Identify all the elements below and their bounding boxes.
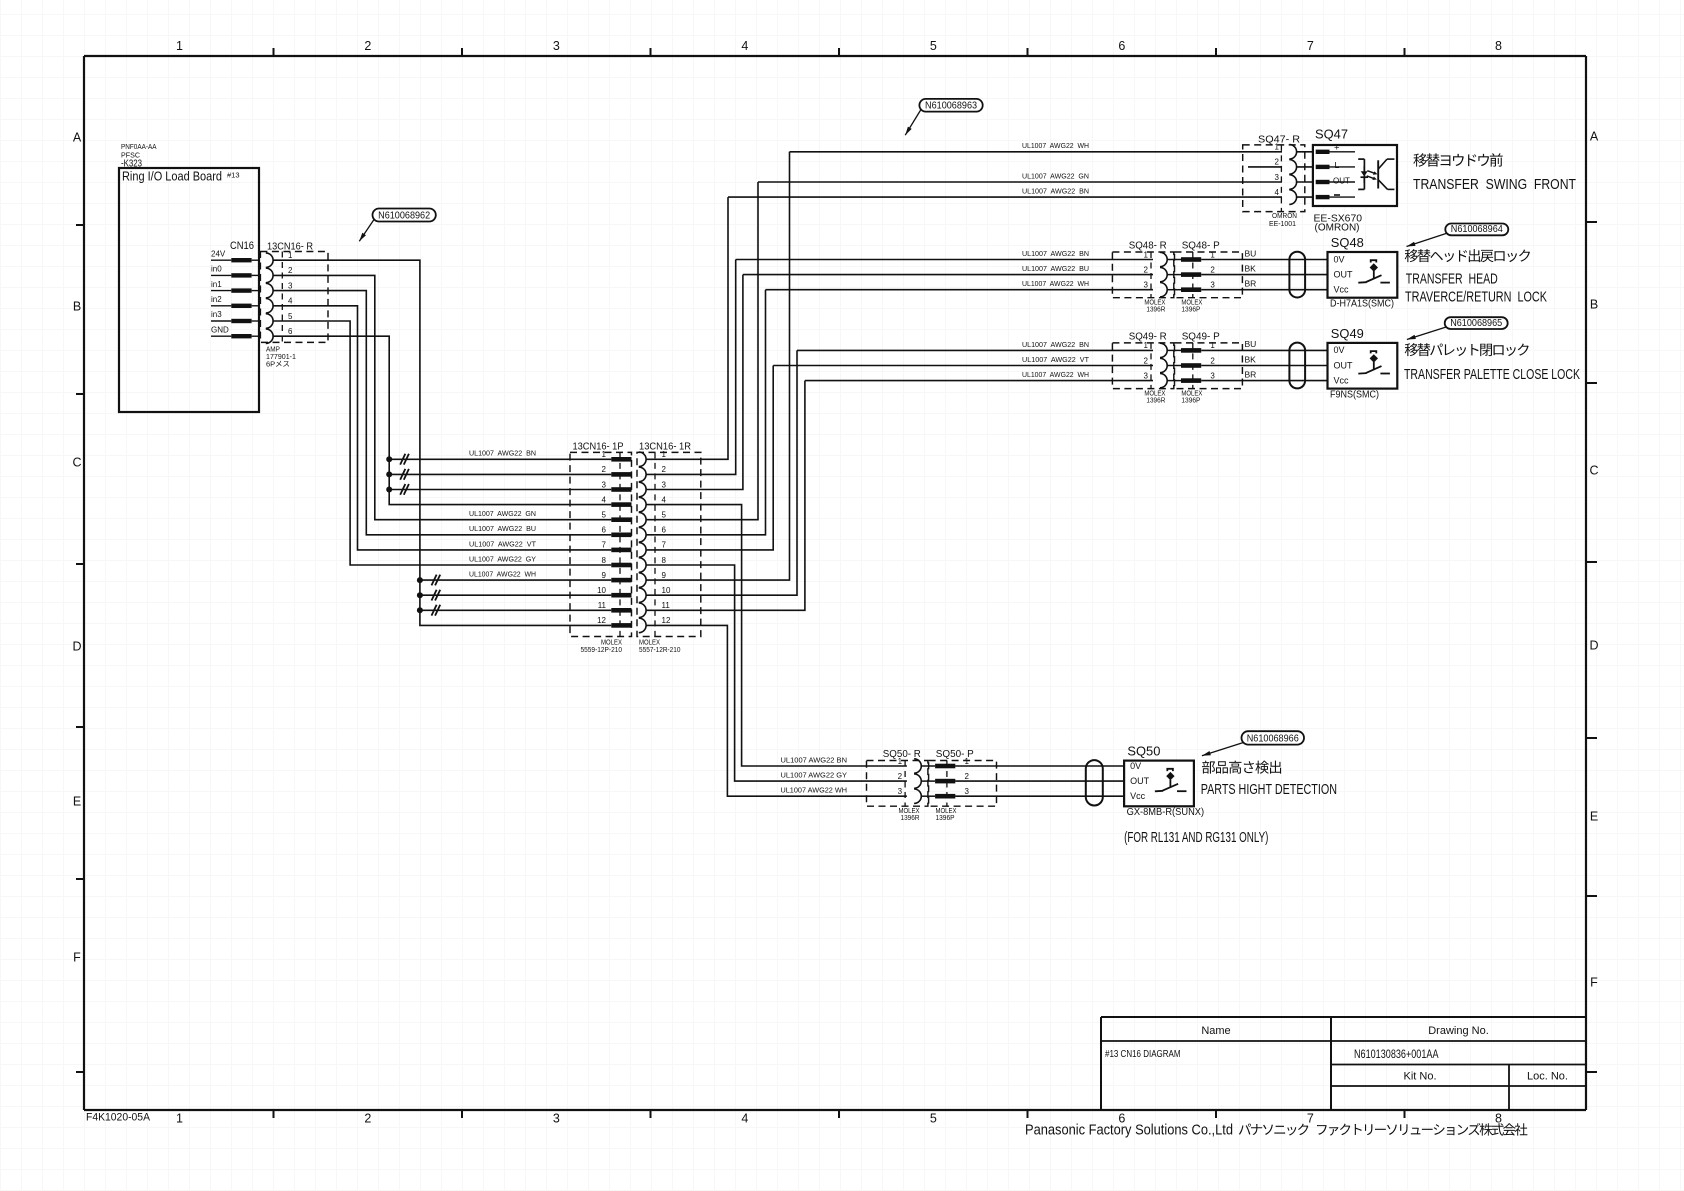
- svg-text:SQ47: SQ47: [1315, 128, 1348, 142]
- callout N610068965: [1407, 317, 1508, 340]
- connector 13CN16-R (AMP 177901-1 6P): [260, 241, 328, 369]
- svg-text:3: 3: [553, 39, 560, 53]
- svg-text:MOLEX: MOLEX: [1181, 390, 1202, 397]
- svg-text:6: 6: [602, 526, 607, 535]
- svg-text:UL1007 AWG22 WH: UL1007 AWG22 WH: [1022, 370, 1089, 379]
- svg-text:UL1007 AWG22 GN: UL1007 AWG22 GN: [469, 509, 536, 518]
- svg-text:3: 3: [1144, 371, 1149, 380]
- Ring I/O Load Board -K323: [119, 142, 259, 412]
- title block: [1101, 1017, 1586, 1110]
- svg-text:F4K1020-05A: F4K1020-05A: [86, 1112, 151, 1124]
- svg-text:SQ47- R: SQ47- R: [1258, 134, 1300, 146]
- svg-text:1: 1: [1144, 250, 1149, 259]
- wire SQ47 row1: [790, 151, 1283, 153]
- svg-text:2: 2: [662, 465, 667, 474]
- svg-text:6: 6: [662, 526, 667, 535]
- label TRANSFER HEAD TRAVERCE/RETURN LOCK: [1405, 249, 1548, 305]
- wire SQ47 row2 stub: [1248, 166, 1282, 168]
- cable oval SQ50: [1086, 760, 1103, 805]
- wire labels to SQ50: [781, 755, 848, 794]
- svg-text:4: 4: [602, 495, 607, 504]
- wire SQ47 row3: [758, 181, 1282, 183]
- wires into SQ48-R: [736, 259, 1153, 261]
- svg-text:C: C: [72, 456, 81, 470]
- svg-text:OUT: OUT: [1333, 176, 1350, 185]
- svg-text:SQ50: SQ50: [1127, 745, 1160, 759]
- svg-text:7: 7: [1307, 1112, 1314, 1126]
- svg-text:0V: 0V: [1334, 254, 1345, 264]
- svg-text:Panasonic Factory Solutions Co: Panasonic Factory Solutions Co.,Ltd: [1025, 1122, 1233, 1139]
- svg-text:TRANSFER PALETTE CLOSE LOCK: TRANSFER PALETTE CLOSE LOCK: [1404, 367, 1580, 383]
- svg-text:5: 5: [662, 511, 667, 520]
- svg-text:UL1007 AWG22 BN: UL1007 AWG22 BN: [781, 755, 848, 764]
- svg-text:6: 6: [1118, 39, 1125, 53]
- label TRANSFER SWING FRONT: [1413, 153, 1576, 193]
- svg-text:L: L: [1335, 160, 1340, 170]
- svg-text:1: 1: [176, 39, 183, 53]
- wire 13CN16-1R pin8 to SQ50 OUT: [646, 565, 907, 781]
- wire in3: 13CN16-R pin5 to 13CN16-1P pin8: [273, 321, 611, 565]
- svg-text:Vcc: Vcc: [1334, 375, 1350, 385]
- svg-text:12: 12: [597, 616, 606, 625]
- svg-text:F9NS(SMC): F9NS(SMC): [1330, 389, 1379, 400]
- svg-text:#13 CN16 DIAGRAM: #13 CN16 DIAGRAM: [1105, 1049, 1181, 1060]
- svg-text:MOLEX: MOLEX: [1144, 300, 1165, 307]
- svg-text:UL1007 AWG22 GN: UL1007 AWG22 GN: [1022, 171, 1089, 180]
- svg-text:UL1007 AWG22 VT: UL1007 AWG22 VT: [469, 539, 536, 548]
- svg-text:BK: BK: [1245, 354, 1257, 364]
- svg-text:3: 3: [1144, 281, 1149, 290]
- svg-text:1: 1: [1210, 250, 1215, 259]
- svg-text:in1: in1: [211, 280, 222, 289]
- svg-text:3: 3: [1210, 281, 1215, 290]
- svg-text:8: 8: [662, 556, 667, 565]
- svg-text:MOLEX: MOLEX: [1144, 390, 1165, 397]
- svg-text:9: 9: [602, 571, 607, 580]
- svg-text:2: 2: [1210, 356, 1215, 365]
- wires SQ49-P to SQ49: [1201, 350, 1327, 380]
- svg-text:11: 11: [598, 601, 607, 610]
- wire in1: 13CN16-R pin3 to 13CN16-1P pin6: [273, 291, 611, 535]
- svg-text:8: 8: [602, 556, 607, 565]
- svg-text:1: 1: [288, 251, 293, 260]
- svg-text:N610068965: N610068965: [1450, 317, 1502, 329]
- svg-text:UL1007 AWG22 BN: UL1007 AWG22 BN: [1022, 340, 1089, 349]
- svg-text:UL1007 AWG22 WH: UL1007 AWG22 WH: [781, 786, 848, 795]
- wires SQ50-P to SQ50: [955, 766, 1124, 796]
- callout N610068966: [1202, 731, 1304, 756]
- svg-text:-K323: -K323: [121, 158, 142, 170]
- svg-text:Drawing No.: Drawing No.: [1428, 1025, 1489, 1037]
- svg-text:Name: Name: [1201, 1025, 1230, 1037]
- svg-text:in2: in2: [211, 295, 222, 304]
- svg-text:1396P: 1396P: [936, 815, 955, 822]
- svg-text:5557-12R-210: 5557-12R-210: [639, 645, 681, 654]
- svg-text:UL1007 AWG22 BN: UL1007 AWG22 BN: [469, 449, 536, 458]
- svg-text:0V: 0V: [1130, 761, 1141, 771]
- svg-text:#13: #13: [227, 171, 240, 180]
- svg-text:1396R: 1396R: [1146, 397, 1165, 404]
- svg-text:1: 1: [662, 450, 667, 459]
- wire labels UL1007 AWG22: [469, 449, 536, 579]
- svg-text:4: 4: [662, 495, 667, 504]
- svg-text:12: 12: [662, 616, 671, 625]
- callout N610068963: [905, 99, 983, 135]
- svg-text:BU: BU: [1245, 339, 1257, 349]
- connector pair SQ48-R / SQ48-P (MOLEX 1396): [1112, 240, 1242, 314]
- svg-text:MOLEX: MOLEX: [899, 808, 920, 815]
- svg-text:6P: 6P: [266, 360, 275, 369]
- svg-text:D: D: [1589, 639, 1598, 653]
- wire 13CN16-1R pin6 to SQ48 Vcc: [646, 290, 765, 535]
- wire 13CN16-1R pin9 to SQ47 +: [646, 152, 789, 580]
- svg-text:7: 7: [662, 541, 667, 550]
- svg-text:EE-1001: EE-1001: [1269, 221, 1296, 228]
- svg-text:UL1007 AWG22 WH: UL1007 AWG22 WH: [1022, 141, 1089, 150]
- svg-text:Ring I/O Load Board: Ring I/O Load Board: [122, 170, 222, 184]
- svg-text:in0: in0: [211, 265, 222, 274]
- svg-text:UL1007 AWG22 GY: UL1007 AWG22 GY: [469, 554, 536, 563]
- svg-text:2: 2: [1144, 265, 1149, 274]
- wire SQ47 row4: [728, 196, 1282, 198]
- svg-text:in3: in3: [211, 310, 222, 319]
- svg-text:E: E: [1590, 810, 1598, 824]
- switch sensor SQ48 (D-H7A1S SMC): [1328, 236, 1398, 310]
- svg-text:3: 3: [898, 787, 903, 796]
- wire 13CN16-1R pin4 to SQ50 0V: [646, 505, 907, 766]
- svg-text:5: 5: [930, 1112, 937, 1126]
- svg-text:CN16: CN16: [230, 240, 254, 252]
- svg-text:F: F: [73, 951, 81, 965]
- svg-text:1: 1: [1210, 341, 1215, 350]
- svg-text:3: 3: [965, 787, 970, 796]
- svg-text:PARTS HIGHT DETECTION: PARTS HIGHT DETECTION: [1201, 782, 1337, 798]
- svg-text:GND: GND: [211, 325, 229, 334]
- svg-text:BR: BR: [1245, 279, 1257, 289]
- svg-text:BR: BR: [1245, 369, 1257, 379]
- svg-text:MOLEX: MOLEX: [936, 808, 957, 815]
- svg-text:MOLEX: MOLEX: [1181, 300, 1202, 307]
- svg-text:UL1007 AWG22 VT: UL1007 AWG22 VT: [1022, 355, 1089, 364]
- svg-text:SQ49: SQ49: [1331, 327, 1364, 341]
- svg-text:OUT: OUT: [1334, 269, 1354, 279]
- svg-text:Loc. No.: Loc. No.: [1527, 1071, 1568, 1083]
- wire labels to SQ49: [1022, 340, 1089, 379]
- svg-text:4: 4: [741, 1112, 748, 1126]
- svg-text:F: F: [1590, 976, 1598, 990]
- cable oval SQ48: [1289, 252, 1305, 298]
- svg-text:A: A: [73, 131, 82, 145]
- connector 13CN16-1P (MOLEX 5559-12P-210): [570, 441, 632, 655]
- svg-text:B: B: [1590, 298, 1598, 312]
- svg-text:N610068964: N610068964: [1451, 223, 1503, 235]
- svg-text:3: 3: [602, 480, 607, 489]
- svg-text:N610068966: N610068966: [1247, 732, 1299, 744]
- svg-text:1396P: 1396P: [1181, 307, 1200, 314]
- svg-text:1: 1: [965, 757, 970, 766]
- connector pair SQ50-R / SQ50-P (MOLEX 1396): [867, 748, 997, 822]
- cable oval SQ49: [1289, 343, 1305, 389]
- wire 13CN16-1R pin12 to SQ50 Vcc: [646, 625, 907, 796]
- wire colours BU BK BR: [1245, 248, 1257, 288]
- svg-text:4: 4: [288, 297, 293, 306]
- wire in0: 13CN16-R pin2 to 13CN16-1P pin5: [273, 275, 611, 519]
- svg-text:7: 7: [602, 541, 607, 550]
- svg-text:3: 3: [288, 281, 293, 290]
- svg-text:4: 4: [741, 39, 748, 53]
- svg-text:13CN16- 1P: 13CN16- 1P: [573, 441, 624, 453]
- svg-text:1396R: 1396R: [1146, 307, 1165, 314]
- svg-text:3: 3: [1275, 173, 1280, 182]
- svg-text:UL1007 AWG22 WH: UL1007 AWG22 WH: [469, 570, 536, 579]
- svg-text:C: C: [1589, 464, 1598, 478]
- svg-text:24V: 24V: [211, 249, 226, 258]
- svg-text:D-H7A1S(SMC): D-H7A1S(SMC): [1330, 299, 1394, 310]
- svg-text:2: 2: [965, 772, 970, 781]
- svg-text:UL1007 AWG22 BN: UL1007 AWG22 BN: [1022, 187, 1089, 196]
- connector pair SQ49-R / SQ49-P (MOLEX 1396): [1112, 330, 1242, 404]
- svg-text:1: 1: [176, 1112, 183, 1126]
- wire 13CN16-1R pin10 to SQ49 0V: [646, 350, 797, 595]
- svg-text:1396R: 1396R: [901, 815, 920, 822]
- svg-text:2: 2: [1275, 158, 1280, 167]
- svg-text:1: 1: [1275, 143, 1280, 152]
- svg-text:B: B: [73, 300, 81, 314]
- wires SQ48-P to SQ48: [1201, 260, 1327, 290]
- svg-text:0V: 0V: [1334, 345, 1345, 355]
- svg-text:UL1007 AWG22 BU: UL1007 AWG22 BU: [469, 524, 536, 533]
- svg-text:11: 11: [662, 601, 671, 610]
- connector 13CN16-1R (MOLEX 5557-12R-210): [637, 441, 701, 655]
- svg-text:4: 4: [1275, 188, 1280, 197]
- svg-text:2: 2: [364, 1112, 371, 1126]
- wire labels to SQ47: [1022, 141, 1089, 195]
- svg-text:UL1007 AWG22 GY: UL1007 AWG22 GY: [781, 771, 848, 780]
- callout N610068962: [359, 209, 436, 242]
- svg-text:+: +: [1334, 143, 1340, 154]
- svg-text:N610068963: N610068963: [925, 99, 977, 111]
- label PARTS HIGHT DETECTION: [1201, 761, 1337, 798]
- svg-text:OUT: OUT: [1334, 360, 1354, 370]
- wire 13CN16-1R pin7 to SQ49 OUT: [646, 366, 773, 550]
- svg-text:Vcc: Vcc: [1130, 791, 1146, 801]
- svg-text:2: 2: [288, 266, 293, 275]
- wire 13CN16-1R pin1 to SQ47 pin -: [646, 197, 728, 459]
- svg-text:TRAVERCE/RETURN LOCK: TRAVERCE/RETURN LOCK: [1405, 290, 1547, 306]
- svg-text:8: 8: [1495, 39, 1502, 53]
- svg-text:9: 9: [662, 571, 667, 580]
- switch sensor SQ49 (F9NS SMC): [1328, 327, 1398, 401]
- svg-text:2: 2: [1144, 356, 1149, 365]
- svg-text:SQ48: SQ48: [1331, 236, 1364, 250]
- svg-text:5559-12P-210: 5559-12P-210: [581, 645, 623, 654]
- svg-text:1: 1: [898, 757, 903, 766]
- svg-text:OMRON: OMRON: [1272, 213, 1297, 220]
- wire labels to SQ48: [1022, 249, 1089, 288]
- callout N610068964: [1407, 223, 1509, 246]
- svg-text:3: 3: [662, 480, 667, 489]
- svg-text:10: 10: [597, 586, 606, 595]
- svg-text:E: E: [73, 795, 81, 809]
- wire 13CN16-1R pin3 to SQ48 OUT: [646, 275, 743, 490]
- svg-text:5: 5: [602, 511, 607, 520]
- svg-text:N610068962: N610068962: [378, 209, 430, 221]
- wires into SQ49-R: [797, 349, 1153, 351]
- wire colours BU BK BR: [1245, 339, 1257, 379]
- svg-text:1396P: 1396P: [1181, 397, 1200, 404]
- wire 24V: 13CN16-R pin1 to 13CN16-1P pins 9-12: [273, 260, 611, 625]
- wire 13CN16-1R pin2 to SQ48 0V: [646, 260, 736, 475]
- svg-text:Kit No.: Kit No.: [1403, 1071, 1436, 1083]
- svg-text:(OMRON): (OMRON): [1315, 222, 1360, 234]
- svg-text:UL1007 AWG22 BN: UL1007 AWG22 BN: [1022, 249, 1089, 258]
- svg-text:1: 1: [1144, 341, 1149, 350]
- svg-text:N610130836+001AA: N610130836+001AA: [1354, 1047, 1439, 1061]
- label TRANSFER PALETTE CLOSE LOCK: [1404, 343, 1580, 383]
- svg-text:Vcc: Vcc: [1334, 285, 1350, 295]
- wire in2: 13CN16-R pin4 to 13CN16-1P pin7: [273, 306, 611, 550]
- wire GND: 13CN16-R pin6 to 13CN16-1P pins 1-4: [273, 336, 611, 504]
- switch sensor SQ50 (GX-8MB-R SUNX): [1124, 745, 1204, 819]
- wire 13CN16-1R pin5 to SQ47 OUT: [646, 182, 758, 520]
- svg-text:GX-8MB-R(SUNX): GX-8MB-R(SUNX): [1127, 807, 1205, 818]
- svg-text:2: 2: [1210, 265, 1215, 274]
- svg-text:5: 5: [930, 39, 937, 53]
- svg-text:(FOR RL131 AND RG131 ONLY): (FOR RL131 AND RG131 ONLY): [1124, 830, 1268, 846]
- svg-text:10: 10: [662, 586, 671, 595]
- svg-text:5: 5: [288, 312, 293, 321]
- svg-text:2: 2: [364, 39, 371, 53]
- svg-text:UL1007 AWG22 WH: UL1007 AWG22 WH: [1022, 279, 1089, 288]
- footer company name: [1025, 1122, 1527, 1139]
- svg-text:2: 2: [602, 465, 607, 474]
- svg-text:UL1007 AWG22 BU: UL1007 AWG22 BU: [1022, 264, 1089, 273]
- svg-text:TRANSFER SWING FRONT: TRANSFER SWING FRONT: [1413, 177, 1576, 193]
- svg-text:7: 7: [1307, 39, 1314, 53]
- connector CN16: [211, 240, 259, 338]
- svg-text:3: 3: [1210, 371, 1215, 380]
- svg-text:BK: BK: [1245, 263, 1257, 273]
- svg-text:1: 1: [602, 450, 607, 459]
- connector SQ47-R (OMRON EE-1001): [1243, 134, 1313, 229]
- svg-text:A: A: [1590, 130, 1599, 144]
- photo sensor SQ47 (OMRON EE-SX670): [1313, 128, 1397, 234]
- svg-text:D: D: [72, 640, 81, 654]
- svg-text:2: 2: [898, 772, 903, 781]
- svg-text:3: 3: [553, 1112, 560, 1126]
- wire 13CN16-1R pin11 to SQ49 Vcc: [646, 381, 805, 611]
- svg-text:BU: BU: [1245, 248, 1257, 258]
- svg-text:TRANSFER HEAD: TRANSFER HEAD: [1406, 272, 1498, 288]
- svg-text:OUT: OUT: [1130, 776, 1150, 786]
- svg-text:6: 6: [288, 327, 293, 336]
